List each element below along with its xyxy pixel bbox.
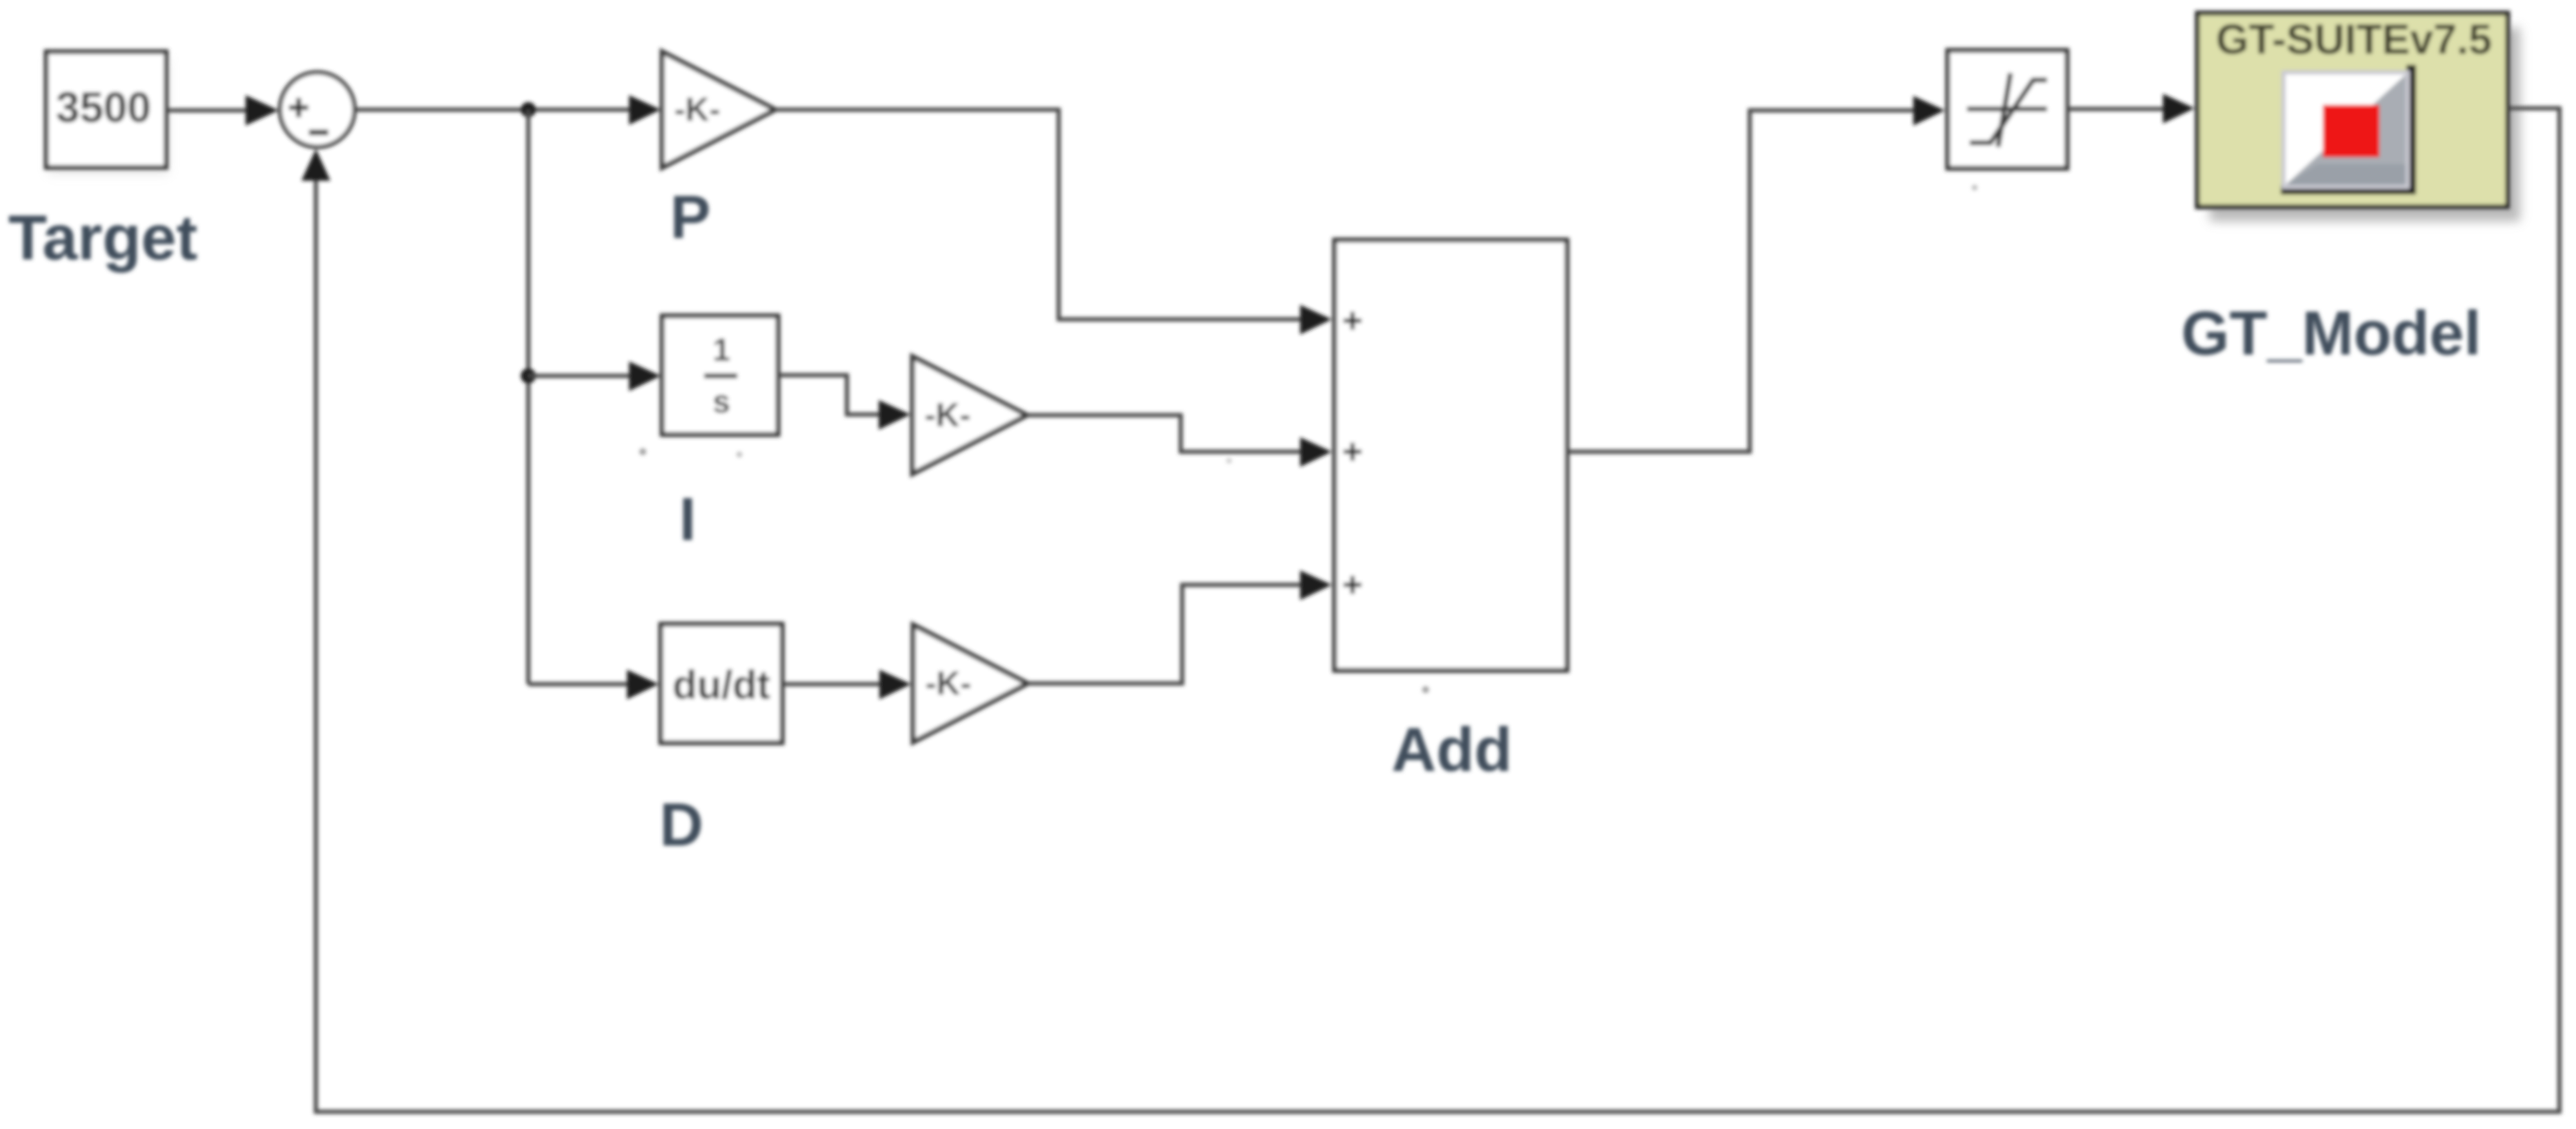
svg-text:-K-: -K- xyxy=(926,666,972,702)
wire branch to integrator xyxy=(528,374,635,378)
Add block xyxy=(1335,240,1567,670)
wire Add output to saturation xyxy=(1567,110,1919,452)
gain D triangle xyxy=(913,625,1028,742)
gain I triangle xyxy=(912,357,1027,474)
svg-text:3500: 3500 xyxy=(56,84,151,132)
speck under integrator right xyxy=(737,452,742,457)
wire sum to P gain xyxy=(355,108,635,112)
sum junction circle xyxy=(280,72,355,147)
speck under saturation block xyxy=(1972,185,1977,190)
GT-SUITE model block xyxy=(2197,13,2520,221)
saturation block xyxy=(1948,50,2067,168)
wire I gain to Add input 2 xyxy=(1027,415,1301,452)
wire saturation to GT model xyxy=(2067,107,2169,111)
svg-text:-K-: -K- xyxy=(925,397,971,434)
svg-text:s: s xyxy=(712,383,730,419)
svg-text:D: D xyxy=(659,790,703,859)
speck under Add block xyxy=(1422,686,1429,693)
GT icon white tile xyxy=(2284,72,2408,187)
wire derivative to D gain xyxy=(782,682,886,686)
GT icon black frame xyxy=(2406,65,2416,193)
GT icon gray bevel xyxy=(2286,74,2406,185)
derivative block du/dt xyxy=(661,624,782,743)
speck under integrator left xyxy=(639,448,646,455)
svg-text:GT_Model: GT_Model xyxy=(2181,299,2481,368)
wire D gain to Add input 3 xyxy=(1028,585,1301,683)
wire GT model output feedback xyxy=(316,108,2559,1112)
svg-text:P: P xyxy=(670,183,711,251)
GT icon red square xyxy=(2323,105,2379,157)
svg-text:GT-SUITEv7.5: GT-SUITEv7.5 xyxy=(2216,16,2492,63)
svg-text:du/dt: du/dt xyxy=(672,663,770,708)
wire branch to derivative xyxy=(528,682,633,686)
svg-text:Add: Add xyxy=(1392,716,1512,785)
speck right of I gain xyxy=(1226,458,1232,463)
node junction on main line xyxy=(521,102,536,117)
wire P gain to Add input 1 xyxy=(775,110,1301,319)
wire constant to sum xyxy=(166,108,254,112)
svg-text:I: I xyxy=(679,485,696,553)
svg-text:Target: Target xyxy=(8,203,197,273)
integrator block 1/s xyxy=(662,316,778,434)
wire vertical branch xyxy=(526,110,530,684)
wire integrator to I gain xyxy=(778,375,885,414)
gain P triangle xyxy=(662,52,775,168)
svg-text:-K-: -K- xyxy=(675,92,721,128)
constant block 3500 xyxy=(46,52,168,174)
node junction integrator branch xyxy=(521,368,536,383)
svg-text:1: 1 xyxy=(712,332,730,368)
